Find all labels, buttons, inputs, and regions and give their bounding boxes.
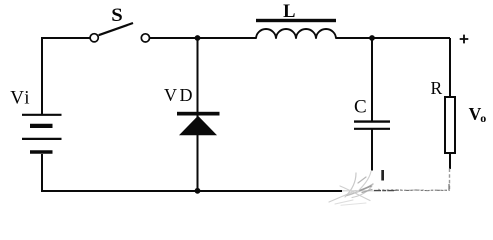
svg-text:Vi: Vi: [10, 87, 31, 108]
svg-text:C: C: [354, 97, 367, 118]
svg-text:VD: VD: [164, 85, 195, 105]
svg-text:R: R: [431, 78, 443, 98]
svg-text:S: S: [111, 6, 123, 26]
svg-text:L: L: [283, 2, 295, 22]
svg-text:o: o: [480, 111, 486, 125]
